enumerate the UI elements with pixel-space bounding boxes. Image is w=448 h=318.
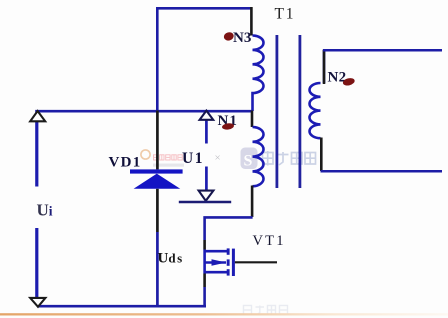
U1 arrowhead up (open) [200,111,214,120]
wire: input positive rail (horizontal, Ui+ to N1 top) [35,110,252,113]
watermark: vicu pink text [154,155,183,160]
Ui arrowhead up (open) [30,111,45,121]
wire: black drop from top rail to N3 winding [250,7,253,36]
wire: black N2 top lead [323,50,326,85]
MOSFET VT1 gate bar [232,249,235,276]
wire: bottom return rail [37,305,206,308]
MOSFET VT1 source lead blue to bottom rail [203,287,206,307]
wire: top rail from node above diode to T1 primary top [157,8,250,111]
MOSFET VT1 drain corner wire [205,217,253,240]
watermark: vicu ring logo [141,150,150,159]
watermark: vicu url text [153,164,184,167]
svg-text:U1: U1 [182,150,204,167]
watermark: faint bottom logo text [244,306,288,315]
svg-text:S: S [244,153,253,170]
wire: secondary output top [323,49,442,52]
diode VD1 triangle [134,174,181,189]
MOSFET VT1 drain lead black part [203,240,206,250]
MOSFET VT1 body stub with arrow [205,261,226,263]
MOSFET VT1 source lead black part [203,274,206,288]
wire: black segment from mid rail junction to N1 winding [251,111,254,128]
MOSFET VT1 left bus [203,250,206,274]
U1 arrowhead down (open) [199,191,214,201]
svg-text:×: × [215,152,221,164]
MOSFET VT1 gate lead [235,261,277,263]
svg-text:VD1: VD1 [109,155,142,171]
Ui measurement arrow line [35,121,38,187]
MOSFET VT1 channel segments [227,248,230,254]
polarity dot N1 [222,122,235,130]
svg-text:Uds: Uds [158,251,184,267]
svg-text:N3: N3 [233,30,251,46]
svg-text:Ui: Ui [37,201,53,220]
transformer T1 winding N2 (secondary) [310,50,325,138]
MOSFET VT1 drain stub [205,250,227,253]
diode VD1 cathode bar [130,169,183,173]
diode VD1 lower lead (black then blue) [156,189,159,232]
watermark: star-ball text [263,151,316,166]
svg-text:T1: T1 [275,6,296,23]
polarity dot N2 [342,77,355,87]
wire: black segment N1 bottom down to drain corner [251,186,254,218]
svg-text:VT1: VT1 [253,233,286,249]
transformer T1 winding N1 (primary) [253,127,264,186]
transformer T1 core (two bars) [276,35,279,188]
U1 bottom reference bar [179,201,231,203]
watermark: star-ball logo square [241,148,258,170]
watermark: bottom orange line [0,313,448,315]
transformer T1 winding N3 (demagnetizing) [253,36,264,112]
polarity dot N3 [223,31,235,42]
Ui arrowhead down (open) [30,298,45,307]
wire: secondary output bottom [321,170,443,173]
MOSFET VT1 source stub [205,271,227,274]
wire: black N2 bottom lead [320,138,323,172]
diode VD1 anode lead (black, upper) [156,111,159,170]
U1 measurement arrow line [205,120,208,144]
